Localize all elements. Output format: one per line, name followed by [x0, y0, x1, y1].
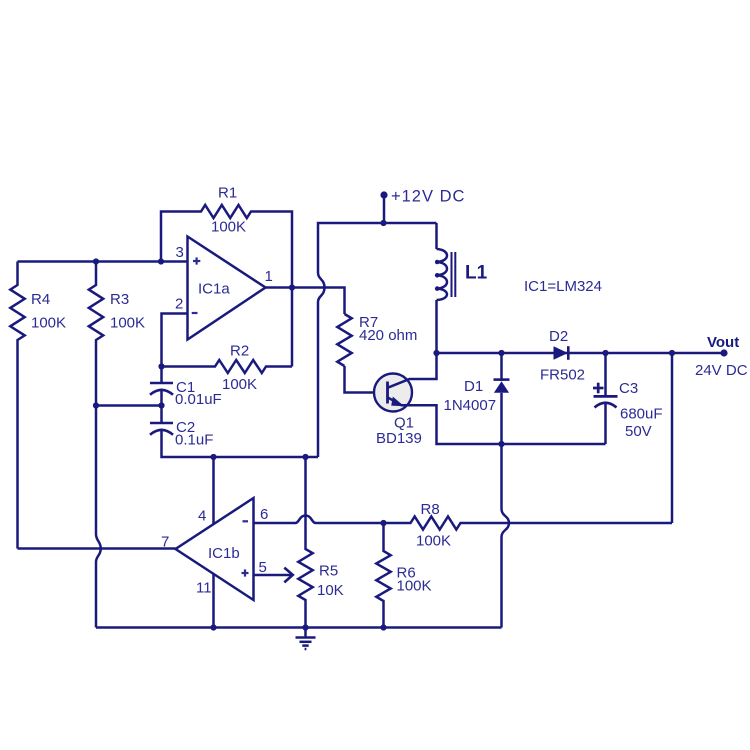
- svg-text:IC1a: IC1a: [198, 281, 230, 298]
- svg-text:1: 1: [265, 268, 273, 285]
- svg-text:R3: R3: [110, 291, 129, 308]
- svg-text:+12V DC: +12V DC: [391, 188, 465, 206]
- IC1a plus: [193, 260, 200, 262]
- resistor R4: [10, 262, 24, 549]
- wire: pin3 input rail: [18, 260, 188, 263]
- capacitor C2: [150, 423, 173, 435]
- IC1a minus: [192, 312, 198, 314]
- svg-text:7: 7: [161, 534, 169, 551]
- op-amp IC1a: [188, 237, 266, 340]
- wire: box right edge with hop over output: [318, 223, 437, 457]
- wire: main output rail: [437, 352, 725, 355]
- svg-text:0.1uF: 0.1uF: [175, 432, 213, 449]
- svg-text:420 ohm: 420 ohm: [359, 327, 417, 344]
- wire: Q1 emitter: [388, 397, 606, 444]
- ground: [304, 628, 307, 638]
- wire: C1/C2 midpoint link: [96, 404, 162, 407]
- svg-text:R5: R5: [319, 563, 338, 580]
- diode D2: [554, 346, 569, 360]
- svg-text:IC1=LM324: IC1=LM324: [524, 278, 602, 295]
- svg-text:Vout: Vout: [707, 334, 739, 351]
- resistor R7: [337, 314, 351, 366]
- IC1b plus: [242, 572, 249, 574]
- transistor Q1: [374, 374, 412, 412]
- wire: oscillator box bottom: [162, 429, 319, 457]
- wire: pin 11: [212, 574, 215, 628]
- wire: IC1a output to R7: [266, 288, 345, 315]
- svg-text:3: 3: [176, 244, 184, 261]
- svg-text:680uF: 680uF: [620, 406, 663, 423]
- wire: pin 4: [212, 457, 215, 524]
- svg-text:R8: R8: [421, 501, 440, 518]
- svg-text:10K: 10K: [317, 582, 344, 599]
- svg-text:100K: 100K: [416, 533, 451, 550]
- svg-text:5: 5: [259, 559, 267, 576]
- wire: D1 column with hop over R8 wire: [502, 444, 510, 628]
- svg-text:Q1: Q1: [394, 415, 414, 432]
- svg-text:1N4007: 1N4007: [444, 397, 497, 414]
- svg-text:FR502: FR502: [540, 367, 585, 384]
- wire: bottom ground rail: [96, 626, 502, 629]
- svg-text:100K: 100K: [397, 578, 432, 595]
- L1 core bars: [452, 252, 456, 297]
- svg-text:R1: R1: [218, 185, 237, 202]
- svg-text:2: 2: [175, 296, 183, 313]
- svg-text:BD139: BD139: [376, 430, 422, 447]
- wire: R8 output leg: [671, 353, 674, 523]
- capacitor C3: [604, 353, 607, 396]
- wire: Q1 collector: [388, 353, 437, 388]
- resistor R6: [376, 523, 390, 628]
- IC1b minus: [243, 520, 249, 522]
- op-amp IC1b: [176, 498, 254, 600]
- svg-text:100K: 100K: [211, 219, 246, 236]
- wire: pin 6 / R8 run with bump over R5 column: [254, 516, 673, 530]
- svg-text:50V: 50V: [625, 423, 652, 440]
- resistor R1: [161, 205, 292, 288]
- svg-text:4: 4: [198, 508, 206, 525]
- wire: R3 column lower with hop over pin7 wire: [96, 406, 101, 628]
- wire: R2 right leg: [291, 288, 294, 367]
- svg-text:24V DC: 24V DC: [695, 362, 748, 379]
- wire: pin 7 feedback: [18, 547, 176, 550]
- svg-text:11: 11: [196, 580, 212, 597]
- svg-text:R2: R2: [230, 343, 249, 360]
- resistor R2: [162, 360, 293, 373]
- svg-text:100K: 100K: [110, 315, 145, 332]
- wire: R7 to Q1 base: [345, 366, 375, 393]
- resistor R3: [89, 262, 103, 406]
- svg-text:D2: D2: [549, 328, 568, 345]
- svg-text:0.01uF: 0.01uF: [175, 391, 222, 408]
- svg-text:C3: C3: [619, 380, 638, 397]
- inductor L1: [435, 223, 438, 249]
- svg-text:6: 6: [260, 506, 268, 523]
- wire: C1 to C2: [160, 389, 163, 423]
- svg-text:100K: 100K: [31, 315, 66, 332]
- wire: pin 2 lead: [162, 314, 188, 384]
- svg-text:IC1b: IC1b: [208, 545, 240, 562]
- wire: pin 5 wiper arrow: [254, 574, 292, 577]
- resistor R5: [298, 457, 312, 628]
- L1 coil joints: [435, 260, 440, 265]
- Vout terminal: [720, 349, 727, 356]
- +12V supply stub: [383, 198, 386, 223]
- C3 plus sign: [593, 383, 604, 394]
- svg-text:100K: 100K: [222, 376, 257, 393]
- svg-text:L1: L1: [465, 263, 488, 284]
- +12V terminal: [380, 191, 387, 198]
- svg-text:D1: D1: [464, 378, 483, 395]
- svg-text:R4: R4: [31, 291, 50, 308]
- diode D1: [500, 353, 503, 381]
- capacitor C1: [150, 383, 173, 395]
